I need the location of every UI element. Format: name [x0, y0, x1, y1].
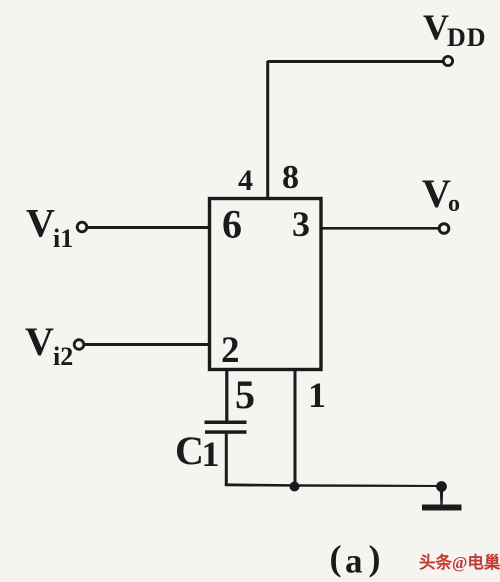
svg-text:i1: i1 — [53, 224, 73, 253]
wire bottom rail — [225, 483, 441, 487]
input terminal Vi2 — [74, 340, 84, 350]
svg-text:6: 6 — [222, 202, 242, 247]
ground — [436, 481, 447, 492]
wire VDD horizontal — [268, 60, 444, 63]
capacitor C1 — [205, 421, 247, 425]
svg-text:8: 8 — [282, 159, 299, 196]
svg-text:V: V — [26, 201, 55, 246]
wire below capacitor — [225, 434, 228, 485]
wire pin 3 to Vo — [320, 227, 439, 230]
input terminal Vi1 — [77, 222, 87, 232]
wire pin 1 down — [294, 369, 297, 487]
wire Vi2 to pin 2 — [84, 343, 209, 346]
svg-text:V: V — [423, 7, 449, 47]
svg-text:o: o — [448, 191, 460, 217]
svg-text:1: 1 — [202, 434, 220, 474]
svg-text:1: 1 — [308, 375, 326, 415]
IC U1 — [210, 199, 322, 370]
svg-text:5: 5 — [235, 372, 255, 417]
svg-text:DD: DD — [447, 23, 487, 52]
svg-text:V: V — [25, 319, 54, 364]
svg-text:a: a — [345, 542, 363, 581]
svg-text:V: V — [422, 171, 451, 216]
power terminal VDD — [443, 56, 452, 65]
wire pin 5 down — [225, 369, 228, 421]
wire Vi1 to pin 6 — [87, 226, 209, 229]
svg-text:): ) — [369, 538, 381, 578]
svg-text:i2: i2 — [53, 342, 73, 371]
svg-text:2: 2 — [221, 330, 240, 371]
svg-text:3: 3 — [292, 204, 310, 244]
svg-text:头条@电巢: 头条@电巢 — [419, 552, 500, 572]
svg-text:(: ( — [330, 538, 342, 578]
svg-text:4: 4 — [238, 164, 253, 197]
output terminal Vo — [439, 224, 449, 234]
node junction — [290, 482, 300, 492]
svg-text:C: C — [175, 428, 204, 473]
wire VDD vertical to pin 8 — [266, 61, 269, 198]
